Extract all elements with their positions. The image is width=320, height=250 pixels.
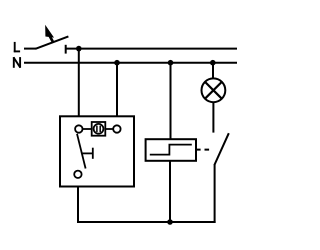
- node N label: [14, 57, 21, 68]
- device switch blade: [77, 134, 86, 169]
- wire bottom rail: [77, 221, 216, 223]
- relay K1 box: [146, 139, 196, 161]
- device terminal 2 circle: [113, 125, 120, 132]
- switch S1 blade: [36, 36, 69, 48]
- node junction on N at device: [114, 60, 120, 66]
- wire N rail: [24, 62, 237, 64]
- switch S1 actuation arrow: [46, 26, 54, 42]
- wire N to lamp: [212, 63, 214, 79]
- wire terminal1 to glow lamp: [83, 128, 92, 130]
- glow lamp H1 square: [92, 122, 106, 136]
- wire N to device terminal 2: [116, 63, 118, 117]
- node junction on N at lamp: [210, 60, 216, 66]
- relay contact K1 blade: [214, 133, 228, 165]
- relay K1 step symbol: [150, 145, 192, 155]
- wire device to bottom rail: [77, 187, 79, 224]
- wire N to relay box: [170, 63, 172, 140]
- switch S1 fixed contact tick: [65, 45, 67, 54]
- device terminal 3 circle: [74, 171, 81, 178]
- node L label: [14, 42, 20, 52]
- node junction on L: [76, 46, 82, 52]
- wire L to device terminal 1: [78, 49, 80, 117]
- device switch actuator T: [82, 152, 93, 154]
- wire contact to bottom rail: [214, 164, 216, 223]
- lamp E1: [202, 78, 226, 102]
- device U1 box: [60, 116, 134, 186]
- wire relay box to bottom rail: [169, 161, 171, 222]
- dashed actuation link: [196, 149, 212, 151]
- wire L stub: [24, 48, 36, 50]
- wire glow lamp to terminal2: [105, 128, 113, 130]
- device terminal 1 circle: [75, 125, 82, 132]
- wire L rail: [66, 48, 237, 50]
- node junction on N at relay: [168, 60, 174, 66]
- node junction bottom: [167, 219, 173, 225]
- glow lamp H1 circle: [94, 124, 104, 134]
- wire lamp to contact: [212, 102, 214, 132]
- glow lamp H1 electrodes: [96, 126, 98, 132]
